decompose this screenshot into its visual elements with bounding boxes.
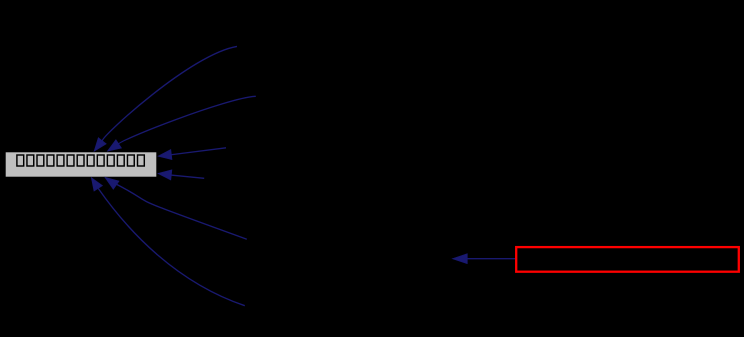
edge 6: steep curve into gray box bottom <box>91 178 245 306</box>
edge 5: shallow curve into gray box bottom <box>105 177 247 239</box>
edge 4: short arrow into gray box right edge (lower) <box>158 170 204 180</box>
node: current-file box (gray filled) <box>5 152 157 177</box>
node: referenced-file box (red outline, dark interior) <box>516 247 739 272</box>
label: 13 missing-glyph (tofu) characters inside gray node <box>17 155 144 166</box>
edge 2: include arrow curving from right into gray box top <box>107 96 255 151</box>
edge 1: long include arrow into gray box top-left <box>94 46 237 151</box>
edge 3: short arrow into gray box right edge (upper) <box>158 148 226 160</box>
edge 7: arrow leaving red box toward hidden node <box>452 254 516 264</box>
